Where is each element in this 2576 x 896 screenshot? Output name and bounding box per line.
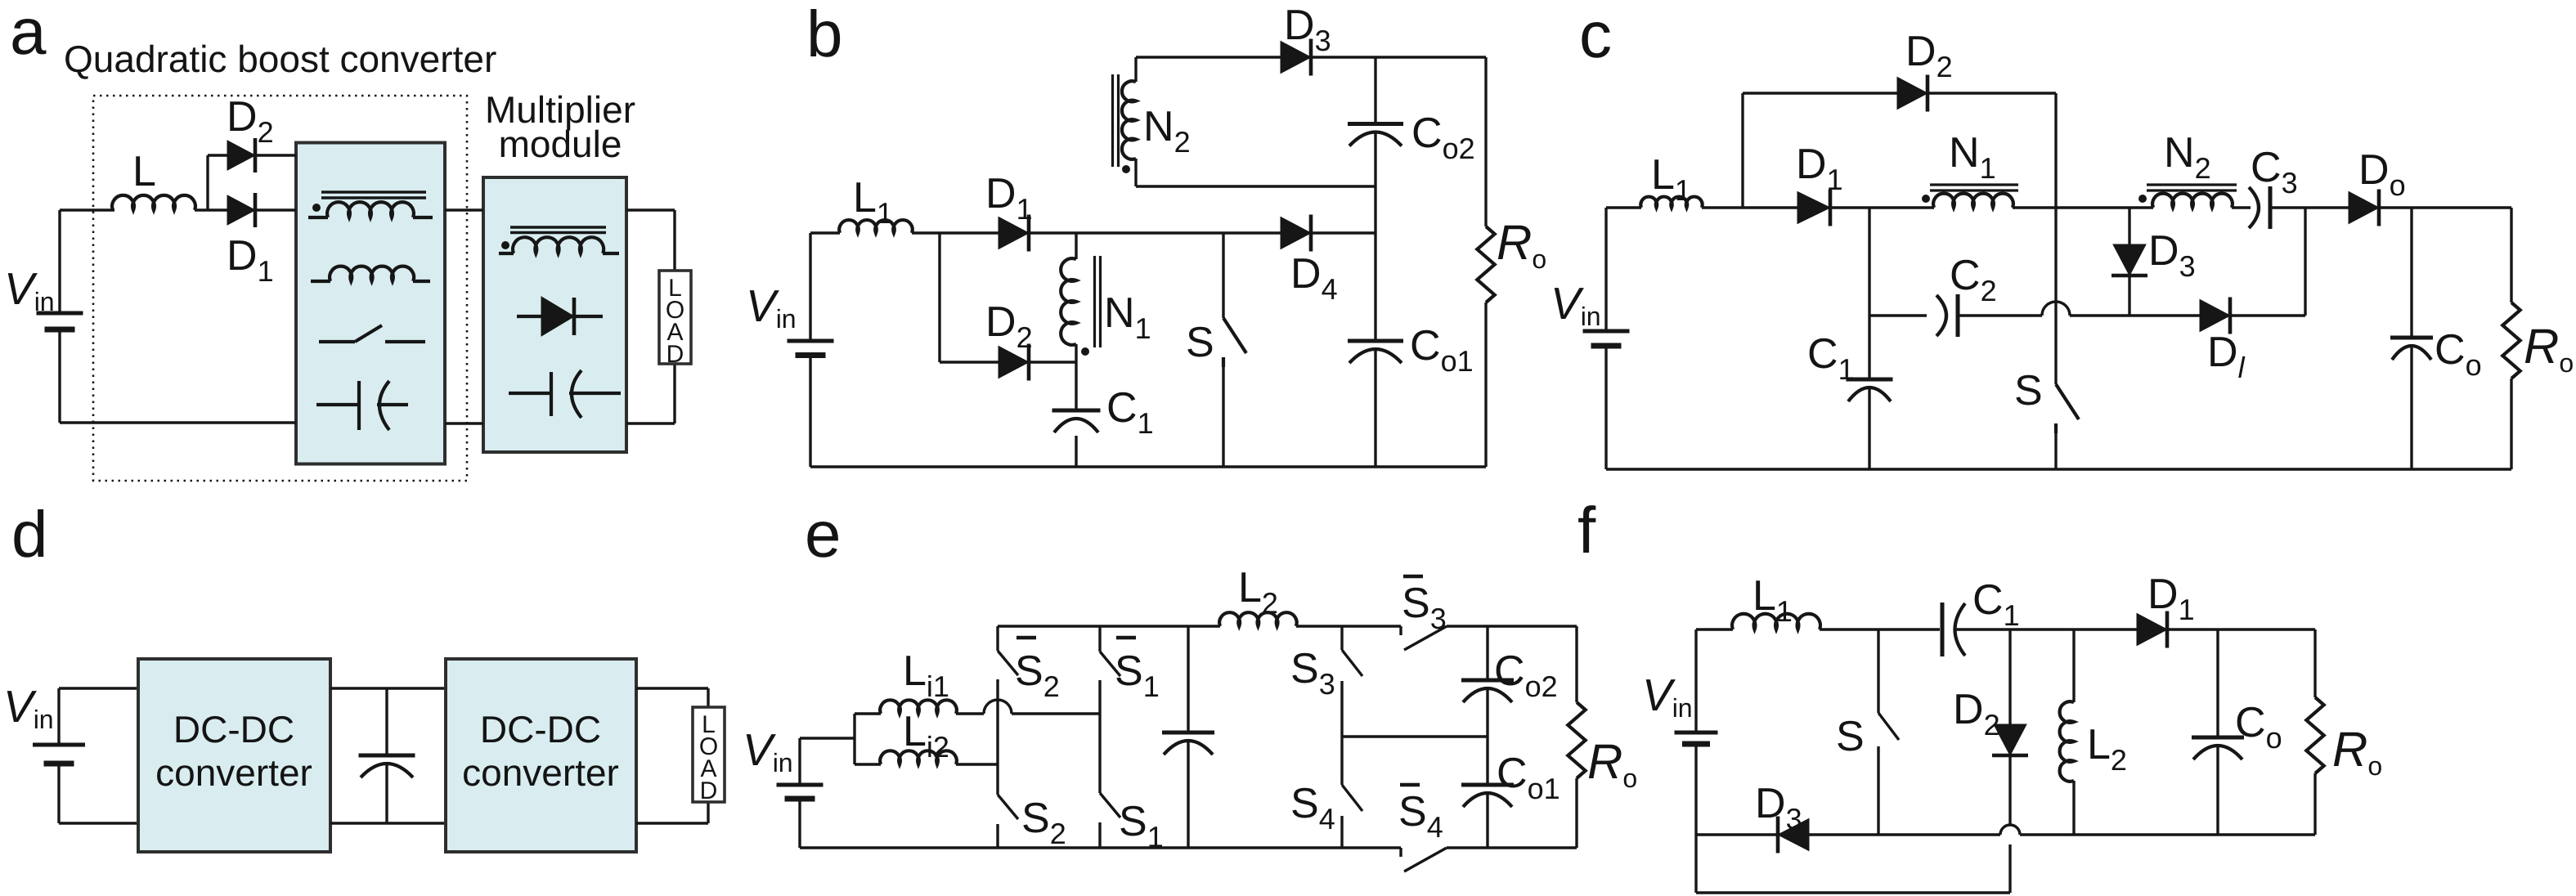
link capacitor (panel d) [359, 755, 415, 777]
wire: L to D1 anode and junction up (panel a) [195, 155, 227, 210]
label Do (panel c) [2358, 146, 2406, 202]
core of N1 (panel b) [1095, 256, 1101, 347]
label D2 (panel b) [985, 298, 1033, 354]
label L1 (panel c) [1651, 151, 1691, 207]
label Co2 (panel e) [1494, 647, 1558, 703]
wire: main Vin to D1 (panel c) [1606, 206, 1797, 208]
label C1 (panel c) [1807, 330, 1855, 386]
capacitor Co (panel c) [2390, 208, 2433, 469]
resistor Ro (panel c) [2502, 302, 2520, 379]
label Ro (panel f) [2332, 722, 2382, 781]
inductor L1 (panel f) [1732, 614, 1820, 629]
inductor Li1 (panel e) [855, 700, 984, 714]
symbol: capacitor in multiplier module [509, 370, 621, 418]
label S1bar (panel e) [1115, 638, 1160, 703]
label Ro (panel c) [2524, 319, 2574, 378]
wire: multiplier module to LOAD bottom (panel a) [626, 364, 675, 423]
label Ro (panel e) [1587, 734, 1637, 793]
inductor L1 (panel c) [1640, 197, 1702, 208]
label S (panel f) [1836, 713, 1865, 760]
panel label e [805, 498, 841, 571]
wire: Vin bottom rail (panel a) [60, 331, 296, 423]
wire: boost cell to multiplier module bottom (panel a) [445, 422, 483, 424]
label Co (panel c) [2435, 326, 2482, 382]
wire: bottom rail (panel b) [810, 465, 1486, 468]
label D1 (panel b) [985, 170, 1033, 226]
capacitor Co (panel f) [2192, 629, 2244, 835]
wire: top rail (panel e) [998, 625, 1577, 627]
label L2 (panel f) [2087, 721, 2127, 777]
link capacitor rail (panel e) [1187, 626, 1189, 848]
diode D1 (panel a) [227, 193, 255, 227]
polarity dot N2 (panel c) [2138, 195, 2147, 203]
wire: Vin top to L (panel a) [60, 210, 114, 311]
symbol: capacitor in boost cell [316, 381, 408, 430]
inductor L2 (panel e) [1219, 612, 1296, 626]
wire: Dl to right riser (panel c) [2231, 314, 2305, 316]
resistor Ro (panel f) [2306, 697, 2323, 773]
capacitor Co1 (panel e) [1461, 785, 1514, 807]
label S (panel b) [1186, 319, 1214, 366]
diode Do (panel c) [2349, 190, 2379, 226]
wire: D2 branch (panel b) [940, 361, 1076, 363]
svg-text:D: D [666, 341, 684, 368]
wire: N2 to C3 (panel c) [2232, 206, 2251, 208]
wire: right rail (panel e) [1575, 626, 1577, 848]
capacitor C1 (panel f) [1942, 603, 1965, 656]
label Co1 (panel b) [1410, 322, 1474, 378]
label C1 (panel f) [1972, 576, 2020, 632]
wire: output right rail (panel c) [2510, 208, 2512, 469]
wire: C3 to Do with junction down (panel c) [2270, 208, 2349, 316]
label N2 (panel c) [2164, 129, 2211, 185]
label N1 (panel b) [1104, 289, 1151, 345]
svg-text:c: c [1579, 0, 1612, 71]
label D3 (panel c) [2148, 227, 2196, 283]
svg-text:DC-DC: DC-DC [480, 708, 601, 750]
wire: very bottom return (panel f) [1696, 844, 2010, 893]
label L1 (panel f) [1752, 572, 1793, 628]
wire: C1 to bottom rail (panel b) [1075, 436, 1077, 467]
wire: N2 bottom rail (panel b) [1136, 185, 1376, 187]
polarity dot N1 (panel c) [1922, 195, 1930, 203]
label D1 (panel a) [227, 232, 274, 288]
wire: N1 bottom to C1 (panel b) [1075, 362, 1077, 409]
label L1 (panel b) [853, 174, 893, 230]
wire: S3/S4 midpoint to output (panel e) [1342, 735, 1488, 737]
diode D2 vertical (panel f) [1992, 629, 2028, 825]
symbol: coupled inductor core in boost cell [321, 192, 426, 198]
svg-text:S: S [2014, 367, 2043, 414]
wire: N1 to N2 segment (panel c) [2013, 206, 2153, 208]
label Vin (panel a) [4, 263, 55, 316]
switch S1bar (panel e) [1100, 626, 1120, 690]
label Li2 (panel e) [903, 708, 949, 764]
load box (panel d) [693, 707, 725, 802]
polarity dot N1 (panel b) [1081, 347, 1089, 356]
panel label b [806, 0, 843, 70]
svg-text:S: S [1186, 319, 1214, 366]
wire: Vin loop left (panel d) [59, 688, 138, 823]
switch S3 (panel e) [1342, 626, 1362, 691]
winding N2 (panel c) [2152, 194, 2233, 208]
capacitor C1 (panel b) [1052, 410, 1101, 432]
core of N1 (panel c) [1930, 185, 2018, 190]
wire: D1 cathode to output corner (panel f) [2168, 628, 2315, 630]
resistor Ro (panel b) [1477, 226, 1494, 302]
label Co2 (panel b) [1411, 110, 1475, 165]
source Vin (panel c) [1583, 331, 1630, 346]
diode D4 (panel b) [1281, 215, 1311, 252]
label Vin (panel d) [3, 681, 54, 734]
wire: bottom rail (panel c) [1606, 468, 2511, 470]
resistor Ro (panel e) [1568, 702, 1585, 778]
source Vin (panel f) [1675, 732, 1718, 744]
label: Multiplier module [485, 88, 635, 165]
wire: D2 bypass loop (panel c) [1743, 93, 2056, 208]
wire: right rail (panel b) [1484, 57, 1487, 467]
capacitor C3 (panel c) [2249, 186, 2270, 229]
wire: C1 to D1 anode (panel f) [1955, 628, 2137, 630]
symbol: coupled inductor core in multiplier module [510, 227, 606, 233]
svg-text:converter: converter [155, 751, 312, 794]
svg-text:d: d [11, 498, 48, 571]
wire: output rail Co2/Co1 (panel e) [1486, 626, 1488, 848]
wire: right rail (panel f) [2313, 629, 2316, 835]
wire: top rail with D3 (panel b) [1136, 56, 1486, 58]
wire: Do to output corner (panel c) [2380, 206, 2511, 208]
svg-text:f: f [1577, 494, 1596, 567]
wire: bottom rail (panel e) [800, 846, 1577, 849]
wire: D1 cathode to N1 top and S (panel b) [1030, 231, 1376, 234]
panel label a [10, 0, 47, 68]
label S4 (panel e) [1290, 780, 1335, 836]
capacitor Co2 (panel e) [1461, 680, 1514, 702]
label N1 (panel c) [1949, 129, 1996, 185]
label C3 (panel c) [2251, 144, 2298, 199]
label D2 (panel c) [1905, 28, 1953, 83]
wire: S1 rail middle (panel e) [1098, 690, 1101, 793]
label Li1 (panel e) [903, 647, 949, 703]
block: DC-DC converter 2 (panel d) [446, 659, 636, 852]
svg-text:DC-DC: DC-DC [173, 708, 294, 750]
label D3 (panel f) [1755, 780, 1802, 836]
wire: bottom rail with D3 (panel f) [1696, 825, 2315, 835]
wire: C2 branch left (panel c) [1869, 314, 1927, 316]
svg-text:S: S [1836, 713, 1865, 760]
wire: S2 rail middle (panel e) [996, 689, 999, 795]
symbol: diode in multiplier module [517, 297, 603, 336]
inductor L2 vertical (panel f) [2060, 629, 2074, 835]
diode D2 (panel c) [1897, 75, 1928, 112]
switch S (panel f) [1878, 629, 1899, 835]
capacitor Co1 (panel b) [1348, 341, 1403, 363]
label C2 (panel c) [1950, 252, 1997, 307]
switch S (panel b) [1223, 233, 1246, 467]
panel label f [1577, 494, 1596, 567]
switch S2 (panel e) [998, 795, 1018, 848]
diode D2 (panel b) [999, 344, 1029, 381]
diode Dl (panel c) [2200, 298, 2230, 334]
diode D1 (panel c) [1797, 190, 1830, 226]
wire: junction down to D2 branch (panel b) [938, 233, 940, 362]
block: multiplier module box (cyan) [483, 177, 626, 452]
label D1 (panel c) [1796, 141, 1843, 196]
switch S2bar (panel e) [998, 626, 1018, 689]
label D2 (panel f) [1953, 686, 2000, 741]
switch S (panel c) [2056, 208, 2079, 469]
label N2 (panel b) [1143, 103, 1191, 159]
label DC-DC converter 2 [462, 708, 619, 794]
label LOAD (panel d) [699, 711, 718, 804]
wire: main horizontal Vin to D1 (panel b) [810, 231, 999, 234]
symbol: inductor in boost cell [311, 267, 430, 281]
svg-text:converter: converter [462, 751, 619, 794]
label S3bar (panel e) [1402, 576, 1447, 635]
capacitor C1 (panel c) [1847, 379, 1893, 401]
winding N1 (panel c) [1933, 194, 2013, 208]
capacitor C1 rail (panel c) [1868, 208, 1870, 469]
label Vin (panel f) [1642, 670, 1693, 723]
source Vin (panel b) [788, 341, 834, 356]
switch S1 (panel e) [1100, 793, 1120, 848]
wire: input split (panel e) [853, 714, 855, 764]
panel label d [11, 498, 48, 571]
link capacitor (panel e) [1162, 732, 1214, 755]
wire: top Vin to L1 (panel f) [1696, 628, 1940, 630]
wire: Vin rail (panel e) [800, 738, 855, 848]
label DC-DC converter 1 [155, 708, 312, 794]
core of N2 (panel b) [1113, 74, 1119, 167]
label L2 (panel e) [1238, 564, 1278, 620]
label Co (panel f) [2235, 699, 2282, 755]
wire: D2 cathode to box (panel a) [255, 154, 296, 156]
capacitor C2 (panel c) [1936, 294, 1958, 337]
symbol: switch in boost cell [319, 325, 425, 342]
symbol: coupled inductor winding in multiplier module [499, 237, 619, 253]
wire: S3-S4 rail middle (panel e) [1340, 691, 1343, 785]
diode D3 vertical (panel c) [2112, 208, 2147, 316]
label Ro (panel b) [1497, 215, 1546, 274]
label D4 (panel b) [1290, 250, 1338, 306]
source Vin (panel e) [777, 785, 824, 799]
wire: Li1 hop over S2 rail to S1 rail (panel e) [984, 700, 1100, 714]
label D3 (panel b) [1284, 2, 1331, 57]
title: Quadratic boost converter [64, 38, 496, 80]
svg-text:L: L [132, 148, 156, 195]
winding N2 (panel b) [1122, 57, 1136, 186]
dotted boundary box (quadratic boost converter) [93, 96, 467, 481]
switch S4 (panel e) [1342, 785, 1362, 848]
label Dl (panel c) [2207, 329, 2246, 384]
label Vin (panel c) [1551, 278, 1601, 331]
label Vin (panel e) [743, 724, 793, 777]
symbol: winding polarity dot in multiplier module [501, 241, 509, 249]
diode D3 (panel b) [1281, 39, 1311, 76]
link capacitor rail (panel d) [385, 688, 388, 823]
label S2 (panel e) [1021, 795, 1066, 850]
svg-text:Quadratic boost converter: Quadratic boost converter [64, 38, 496, 80]
wire: Vin rail (panel f) [1694, 629, 1697, 893]
svg-text:D: D [700, 777, 718, 804]
inductor L (panel a) [112, 195, 195, 210]
label Vin (panel b) [746, 280, 797, 334]
switch S4bar on bottom rail (panel e) [1401, 848, 1447, 871]
wire: multiplier module to LOAD top (panel a) [626, 210, 675, 271]
wire: D1 cathode to N1 (panel c) [1832, 206, 1934, 208]
label Co1 (panel e) [1497, 750, 1560, 805]
source Vin (panel d) [33, 745, 85, 764]
inductor Li2 (panel e) [855, 750, 998, 764]
wire: box2 to LOAD (panel d) [636, 688, 708, 823]
label S4bar (panel e) [1398, 785, 1443, 844]
source Vin (panel a) [37, 313, 83, 329]
wire: Vin rail (panel b) [809, 233, 811, 467]
label D2 (panel a) [227, 93, 274, 149]
label L (panel a) [132, 148, 156, 195]
block: DC-DC converter 1 (panel d) [138, 659, 330, 852]
label S3 (panel e) [1290, 645, 1335, 701]
diode D1 (panel f) [2137, 612, 2167, 648]
diode D1 (panel b) [999, 215, 1029, 252]
block: boost cell box (cyan) [296, 143, 445, 464]
wire: D1 cathode to box (panel a) [255, 208, 296, 211]
switch S3bar on top rail (panel e) [1401, 626, 1447, 650]
polarity dot N2 (panel b) [1122, 165, 1130, 173]
svg-text:module: module [499, 123, 622, 165]
capacitor Co2 (panel b) [1348, 124, 1403, 146]
diode D3 (panel f) [1778, 817, 1809, 853]
svg-text:b: b [806, 0, 843, 70]
label S1 (panel e) [1119, 798, 1164, 853]
wire: Vin rail (panel c) [1604, 208, 1607, 469]
wire: C2 to D3 rail with hop over S (panel c) [1958, 302, 2200, 316]
panel label c [1579, 0, 1612, 71]
svg-text:e: e [805, 498, 841, 571]
symbol: coupled inductor winding in boost cell [308, 202, 433, 217]
svg-text:a: a [10, 0, 47, 68]
label S2bar (panel e) [1015, 638, 1060, 703]
label LOAD (panel a) [666, 275, 684, 368]
wire: boost cell to multiplier module top (panel a) [445, 208, 483, 211]
inductor L1 (panel b) [839, 220, 913, 233]
core of N2 (panel c) [2147, 185, 2237, 190]
load box (panel a) [659, 271, 691, 364]
wire: output rail Co2/Co1 (panel b) [1374, 57, 1376, 467]
symbol: winding polarity dot in boost cell [312, 204, 321, 212]
diode D2 (panel a) [227, 138, 255, 172]
winding N1 (panel b) [1061, 233, 1076, 362]
wire: link box1 to box2 (panel d) [330, 688, 446, 823]
label C1 (panel b) [1106, 384, 1154, 440]
label S (panel c) [2014, 367, 2043, 414]
label D1 (panel f) [2147, 571, 2195, 626]
